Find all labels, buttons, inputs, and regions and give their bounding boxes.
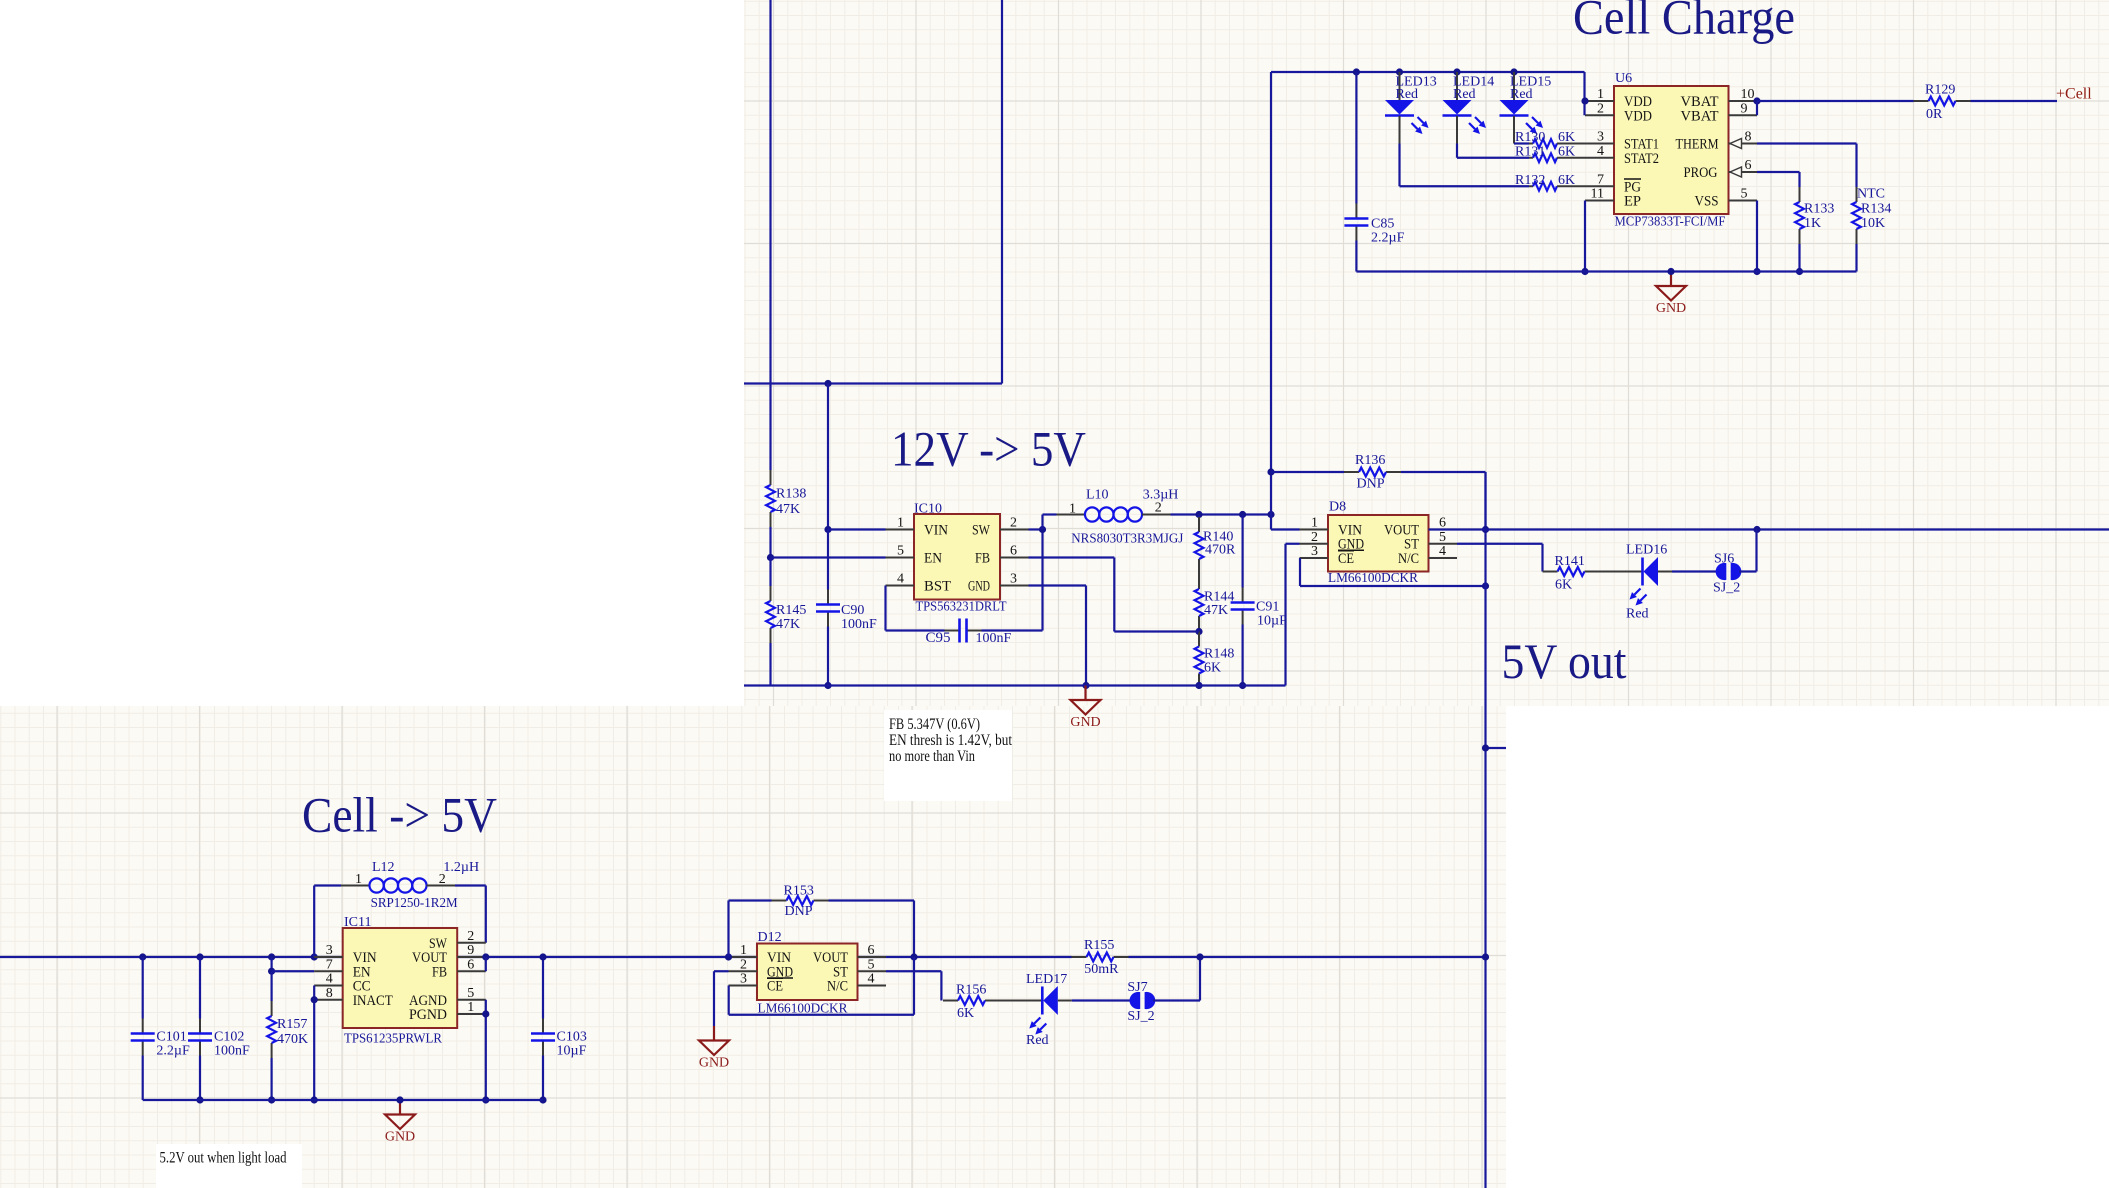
U6 pin 7 <box>1586 172 1615 187</box>
junction LED15 top <box>1510 68 1517 75</box>
junction VOUT node <box>1482 526 1489 533</box>
junction IC11 VIN node <box>311 953 318 960</box>
svg-text:1K: 1K <box>1804 216 1821 231</box>
U6 pin 3 <box>1586 130 1615 145</box>
svg-text:PGND: PGND <box>409 1007 447 1023</box>
svg-text:SRP1250-1R2M: SRP1250-1R2M <box>371 896 459 911</box>
wire R138 to EN <box>769 527 771 558</box>
wire 12V horizontal <box>744 382 1002 384</box>
svg-text:2.2µF: 2.2µF <box>1371 231 1405 246</box>
svg-text:PROG: PROG <box>1684 165 1718 181</box>
svg-text:0R: 0R <box>1926 107 1943 122</box>
svg-text:EN thresh is 1.42V, but: EN thresh is 1.42V, but <box>889 732 1012 749</box>
svg-text:11: 11 <box>1591 187 1604 202</box>
wire D12 ST <box>886 971 941 1000</box>
wire PROG net <box>1757 172 1800 187</box>
D8 pin 6 <box>1429 516 1458 531</box>
D12 pin 4 <box>858 972 887 987</box>
junction R157 top <box>268 953 275 960</box>
junction IC10 gnd <box>1082 682 1089 689</box>
svg-text:C103: C103 <box>557 1030 587 1045</box>
svg-text:L12: L12 <box>372 860 395 875</box>
wire SW node <box>1029 528 1043 530</box>
svg-text:1.2µH: 1.2µH <box>443 860 479 875</box>
svg-text:C91: C91 <box>1256 600 1279 615</box>
power port +Cell <box>2056 86 2092 103</box>
svg-text:INACT: INACT <box>353 993 393 1009</box>
junction CE node <box>1482 582 1489 589</box>
LED LED17 <box>1026 972 1067 1048</box>
svg-text:Red: Red <box>1396 87 1419 102</box>
inductor L12 SRP1250-1R2M <box>341 860 479 911</box>
svg-text:3: 3 <box>326 943 333 958</box>
svg-text:7: 7 <box>326 957 333 972</box>
svg-text:Red: Red <box>1626 607 1649 622</box>
junction EN node IC11 <box>268 968 275 975</box>
wire GND rail charger <box>1356 270 1856 272</box>
svg-text:R153: R153 <box>784 884 814 899</box>
IC10 pin 3 <box>1000 572 1029 587</box>
wire VIN drop <box>827 384 829 530</box>
svg-text:GND: GND <box>968 579 990 595</box>
svg-text:1: 1 <box>1311 516 1318 531</box>
ground symbol 12V section <box>1070 686 1100 731</box>
wire FB net <box>1029 558 1200 632</box>
wire L10 out <box>1171 513 1272 515</box>
svg-text:1: 1 <box>740 943 747 958</box>
IC11 pin 9 <box>457 943 486 958</box>
svg-text:DNP: DNP <box>1357 477 1385 492</box>
junction R157 gnd <box>268 1096 275 1103</box>
svg-text:R148: R148 <box>1204 647 1234 662</box>
junction C91 gnd <box>1239 682 1246 689</box>
wire SJ7 riser <box>1153 957 1200 1001</box>
svg-text:7: 7 <box>1597 172 1604 187</box>
svg-text:SW: SW <box>972 523 991 539</box>
svg-text:FB: FB <box>975 551 990 567</box>
wire 5V node riser <box>1270 72 1272 530</box>
svg-text:1: 1 <box>897 516 904 531</box>
wire VBAT pins tie <box>1756 101 1758 115</box>
wire L12 to SW <box>455 886 486 943</box>
IC10 pin 2 <box>1000 516 1029 531</box>
U6 pin 11 <box>1585 187 1614 202</box>
svg-text:Red: Red <box>1453 87 1476 102</box>
IC11 pin 2 <box>457 929 486 944</box>
svg-text:9: 9 <box>1741 101 1748 116</box>
svg-text:FB 5.347V (0.6V): FB 5.347V (0.6V) <box>889 716 980 733</box>
IC10 pin 6 <box>1000 544 1029 559</box>
junction C85 top <box>1353 68 1360 75</box>
wire D12 CE return <box>729 957 914 1015</box>
capacitor C90 <box>816 530 877 686</box>
svg-text:+Cell: +Cell <box>2056 86 2092 103</box>
svg-text:4: 4 <box>868 972 875 987</box>
svg-text:CE: CE <box>767 979 783 995</box>
svg-text:50mR: 50mR <box>1084 962 1119 977</box>
svg-text:1: 1 <box>1069 501 1076 516</box>
wire VBAT to R129 <box>1757 100 1914 102</box>
svg-text:C85: C85 <box>1371 217 1394 232</box>
svg-text:100nF: 100nF <box>214 1044 250 1059</box>
svg-text:47K: 47K <box>776 617 800 632</box>
junction D12 VIN node <box>725 953 732 960</box>
svg-text:NRS8030T3R3MJGJ: NRS8030T3R3MJGJ <box>1071 532 1183 547</box>
D8 pin 5 <box>1429 530 1458 545</box>
svg-text:5: 5 <box>1439 530 1446 545</box>
junction INACT node <box>311 996 318 1003</box>
svg-text:100nF: 100nF <box>976 631 1012 646</box>
svg-text:470R: 470R <box>1205 543 1236 558</box>
svg-text:C101: C101 <box>156 1030 186 1045</box>
svg-text:R130: R130 <box>1515 130 1545 145</box>
svg-text:MCP73833T-FCI/MF: MCP73833T-FCI/MF <box>1615 215 1726 230</box>
svg-text:1: 1 <box>355 872 362 887</box>
svg-text:1: 1 <box>1597 87 1604 102</box>
svg-text:FB: FB <box>432 964 447 980</box>
IC11 pin 1 <box>457 1000 486 1015</box>
svg-text:R132: R132 <box>1515 173 1545 188</box>
svg-text:1: 1 <box>467 1000 474 1015</box>
svg-text:VBAT: VBAT <box>1681 108 1719 124</box>
svg-text:2: 2 <box>1597 101 1604 116</box>
svg-text:2: 2 <box>439 872 446 887</box>
svg-text:no more than Vin: no more than Vin <box>889 748 975 765</box>
resistor R157 470K <box>267 971 308 1100</box>
junction C101 top <box>139 953 146 960</box>
svg-text:L10: L10 <box>1086 487 1109 502</box>
wire D8 VIN <box>1271 528 1300 530</box>
svg-text:Cell -> 5V: Cell -> 5V <box>302 787 497 843</box>
wire D12 GND <box>714 971 729 1026</box>
LED LED15 <box>1500 72 1552 144</box>
resistor R156 6K <box>943 983 1000 1022</box>
junction C102 top <box>196 953 203 960</box>
wire R157 to EN <box>271 957 273 971</box>
svg-text:NTC: NTC <box>1857 187 1885 202</box>
junction 5V stub <box>1482 744 1489 751</box>
svg-text:47K: 47K <box>776 502 800 517</box>
svg-text:D12: D12 <box>758 930 782 945</box>
wire LED13 cathode <box>1400 144 1530 187</box>
svg-text:3: 3 <box>1311 544 1318 559</box>
svg-text:5V out: 5V out <box>1502 633 1627 689</box>
ground symbol cell section <box>385 1100 415 1145</box>
IC11 pin 8 <box>314 986 343 1001</box>
svg-text:6K: 6K <box>1555 578 1572 593</box>
wire 12V vertical left <box>769 0 771 470</box>
junction C102 gnd <box>196 1096 203 1103</box>
svg-text:100nF: 100nF <box>841 617 877 632</box>
wire GND rail cell section <box>143 1099 543 1101</box>
junction charger gnd stem <box>1667 268 1674 275</box>
svg-text:Cell Charge: Cell Charge <box>1573 0 1795 45</box>
D12 pin 2 <box>729 957 758 972</box>
wire THERM net <box>1757 144 1857 188</box>
buck regulator IC10 TPS563231DRLT <box>914 502 1007 615</box>
svg-text:THERM: THERM <box>1676 137 1719 153</box>
junction R155 sense node <box>1196 953 1203 960</box>
svg-text:6K: 6K <box>1558 130 1575 145</box>
svg-text:10: 10 <box>1741 87 1755 102</box>
svg-text:R133: R133 <box>1804 202 1834 217</box>
wire D8 CE return <box>1300 558 1486 586</box>
svg-text:Red: Red <box>1510 87 1533 102</box>
D8 pin 3 <box>1300 544 1329 559</box>
wire EN to IC10 <box>771 556 886 558</box>
svg-text:4: 4 <box>326 972 333 987</box>
resistor R136 DNP <box>1271 453 1486 492</box>
svg-text:6K: 6K <box>957 1006 974 1021</box>
LED LED14 <box>1443 72 1495 144</box>
svg-text:SJ_2: SJ_2 <box>1127 1009 1154 1024</box>
svg-text:5: 5 <box>1741 187 1748 202</box>
IC10 pin 5 <box>886 544 915 559</box>
resistor R145 <box>766 558 806 686</box>
wire GND rail 12V section <box>744 684 1286 686</box>
resistor R141 <box>1543 554 1600 593</box>
capacitor C102 <box>188 957 250 1100</box>
svg-text:6K: 6K <box>1558 144 1575 159</box>
IC11 pin 3 <box>314 943 343 958</box>
resistor R144 <box>1195 574 1235 631</box>
D8 pin 4 <box>1429 544 1458 559</box>
svg-text:R141: R141 <box>1555 554 1585 569</box>
svg-text:R157: R157 <box>277 1017 307 1032</box>
svg-text:U6: U6 <box>1615 71 1632 86</box>
svg-text:47K: 47K <box>1204 603 1228 618</box>
junction VSS gnd <box>1753 268 1760 275</box>
D8 pin 1 <box>1300 516 1329 531</box>
svg-text:Red: Red <box>1026 1033 1049 1048</box>
wire EP drop <box>1584 201 1586 272</box>
wire D8 ST <box>1457 544 1543 572</box>
IC10 pin 1 <box>886 516 915 531</box>
svg-text:R131: R131 <box>1515 144 1545 159</box>
junction PGND gnd <box>482 1096 489 1103</box>
load switch D8 LM66100DCKR <box>1328 500 1429 587</box>
solder jumper SJ6 <box>1713 552 1741 596</box>
U6 pin 2 <box>1585 101 1614 116</box>
U6 pin 6 PROG input <box>1729 158 1758 177</box>
wire VOUT to right edge <box>1429 528 2109 530</box>
wire C95 to SW <box>982 530 1043 631</box>
svg-text:4: 4 <box>897 572 904 587</box>
resistor R133 1K <box>1795 187 1834 272</box>
wire VIN to IC10 <box>828 528 886 530</box>
capacitor C101 <box>131 957 190 1100</box>
svg-text:R129: R129 <box>1925 83 1955 98</box>
svg-text:3: 3 <box>1597 130 1604 145</box>
svg-text:R156: R156 <box>956 983 986 998</box>
svg-text:R134: R134 <box>1861 202 1891 217</box>
D12 pin 6 <box>858 943 887 958</box>
svg-text:LED16: LED16 <box>1626 543 1667 558</box>
svg-text:2: 2 <box>1311 530 1318 545</box>
resistor R130 <box>1515 130 1586 148</box>
wire BST drop <box>886 586 945 631</box>
section title 12V -> 5V <box>891 421 1086 477</box>
junction C90 gnd <box>824 682 831 689</box>
svg-text:GND: GND <box>1656 301 1686 316</box>
IC11 pin 7 <box>314 957 343 972</box>
note FB thresholds <box>884 710 1012 801</box>
wire FB tie <box>485 957 487 971</box>
junction C103 gnd <box>539 1096 546 1103</box>
svg-text:LM66100DCKR: LM66100DCKR <box>1328 571 1419 586</box>
wire R156 to LED17 <box>1000 1000 1042 1002</box>
junction VBAT node <box>1753 97 1760 104</box>
section title 5V out <box>1502 633 1627 689</box>
ground symbol D12 <box>699 1026 729 1071</box>
svg-text:TPS563231DRLT: TPS563231DRLT <box>916 600 1007 615</box>
svg-text:8: 8 <box>326 986 333 1001</box>
svg-text:EN: EN <box>924 551 942 567</box>
capacitor C95 <box>925 619 1011 647</box>
svg-text:SJ6: SJ6 <box>1714 552 1734 567</box>
wire L12 riser <box>314 886 341 958</box>
junction EN node <box>767 554 774 561</box>
svg-text:6: 6 <box>1010 544 1017 559</box>
svg-text:10K: 10K <box>1861 216 1885 231</box>
wire LED17 to SJ7 <box>1058 1000 1131 1002</box>
svg-text:2.2µF: 2.2µF <box>156 1044 190 1059</box>
U6 pin 9 <box>1729 101 1758 116</box>
svg-text:3: 3 <box>740 972 747 987</box>
U6 pin 5 <box>1729 187 1758 202</box>
junction FB divider <box>1195 628 1202 635</box>
wire SJ6 to 5V <box>1739 530 1757 572</box>
resistor R131 <box>1515 144 1586 162</box>
wire 12V vertical right <box>1001 0 1003 384</box>
svg-text:3: 3 <box>1010 572 1017 587</box>
svg-text:R138: R138 <box>776 487 806 502</box>
svg-text:4: 4 <box>1439 544 1446 559</box>
capacitor C103 <box>531 957 587 1100</box>
junction 12V/VIN branch <box>824 380 831 387</box>
svg-text:LED17: LED17 <box>1026 972 1067 987</box>
U6 pin 8 THERM input <box>1729 130 1758 149</box>
junction LED14 top <box>1453 68 1460 75</box>
resistor R134 NTC 10K <box>1852 187 1891 272</box>
svg-text:6: 6 <box>467 957 474 972</box>
U6 pin 1 <box>1585 87 1614 102</box>
svg-text:4: 4 <box>1597 144 1604 159</box>
svg-text:2: 2 <box>1010 516 1017 531</box>
inductor L10 NRS8030T3R3MJGJ <box>1057 487 1184 546</box>
wire VSS drop <box>1756 201 1758 272</box>
svg-text:8: 8 <box>1745 130 1752 145</box>
wire SW up to L10 <box>1043 515 1057 530</box>
D12 pin 1 <box>729 943 758 958</box>
charger U6 MCP73833T-FCI/MF <box>1614 71 1729 230</box>
svg-text:2: 2 <box>467 929 474 944</box>
svg-text:N/C: N/C <box>827 979 848 995</box>
svg-text:GND: GND <box>385 1130 415 1145</box>
wire 5V out vertical <box>1484 472 1486 1188</box>
wire LED16 to SJ6 <box>1658 571 1718 573</box>
svg-text:GND: GND <box>699 1056 729 1071</box>
resistor R129 0R <box>1914 83 1971 123</box>
svg-text:C95: C95 <box>925 630 950 646</box>
svg-text:2: 2 <box>1155 500 1162 515</box>
svg-text:5: 5 <box>897 544 904 559</box>
svg-text:C102: C102 <box>214 1030 244 1045</box>
junction VOUT node IC11 <box>482 953 489 960</box>
svg-text:CE: CE <box>1338 551 1354 567</box>
svg-text:VIN: VIN <box>924 523 948 539</box>
boost regulator IC11 TPS61235PRWLR <box>343 915 458 1047</box>
svg-text:6K: 6K <box>1558 173 1575 188</box>
junction SW node <box>1039 526 1046 533</box>
IC10 pin 4 <box>886 572 915 587</box>
svg-text:DNP: DNP <box>785 904 813 919</box>
wire EN wire IC11 <box>272 970 315 972</box>
svg-text:VSS: VSS <box>1695 194 1719 210</box>
svg-text:IC11: IC11 <box>344 915 371 930</box>
resistor R155 50mR <box>1072 938 1129 977</box>
D12 pin 3 <box>729 972 758 987</box>
junction R133 gnd <box>1796 268 1803 275</box>
svg-text:5: 5 <box>467 986 474 1001</box>
section title Cell Charge <box>1573 0 1795 45</box>
D12 pin 5 <box>858 957 887 972</box>
U6 pin 4 <box>1586 144 1615 159</box>
junction R148 gnd <box>1195 682 1202 689</box>
svg-text:5: 5 <box>868 957 875 972</box>
wire cell input rail <box>0 956 1486 958</box>
wire IC10 GND return <box>1029 586 1087 686</box>
junction cell gnd stem <box>396 1096 403 1103</box>
wire AGND PGND tie <box>485 1000 487 1100</box>
junction 5V node <box>1267 511 1274 518</box>
LED LED16 <box>1626 543 1667 622</box>
wire LED anode rail <box>1271 71 1585 73</box>
wire R129 to +Cell <box>1971 100 2058 102</box>
junction IC10 VIN node <box>824 526 831 533</box>
resistor R153 DNP <box>729 884 915 958</box>
ground symbol charger <box>1656 272 1686 317</box>
svg-text:2: 2 <box>740 957 747 972</box>
resistor R140 <box>1195 515 1236 575</box>
wire LED14 cathode <box>1457 144 1529 158</box>
svg-text:VDD: VDD <box>1624 108 1652 124</box>
wire R136 right drop <box>1484 472 1486 530</box>
junction C103 top node <box>539 953 546 960</box>
wire CC INACT tie <box>313 986 315 1101</box>
solder jumper SJ7 <box>1127 980 1155 1024</box>
load switch D12 LM66100DCKR <box>757 930 858 1017</box>
resistor R132 <box>1515 173 1586 191</box>
wire LED15 cathode <box>1514 142 1529 144</box>
D8 pin 2 <box>1300 530 1329 545</box>
wire D8 GND drop <box>1286 544 1300 686</box>
IC11 pin 5 <box>457 986 486 1001</box>
IC11 pin 6 <box>457 957 486 972</box>
svg-text:SJ7: SJ7 <box>1127 980 1147 995</box>
svg-text:R136: R136 <box>1355 453 1385 468</box>
svg-text:BST: BST <box>924 579 951 595</box>
svg-text:EP: EP <box>1624 194 1641 210</box>
wire R141 to LED16 <box>1600 571 1643 573</box>
svg-text:6: 6 <box>1745 158 1752 173</box>
capacitor C91 <box>1231 515 1287 686</box>
junction C91 top <box>1239 511 1246 518</box>
svg-text:GND: GND <box>1070 715 1100 730</box>
svg-text:10µF: 10µF <box>557 1044 587 1059</box>
svg-text:R145: R145 <box>776 603 806 618</box>
capacitor C85 <box>1344 72 1404 272</box>
